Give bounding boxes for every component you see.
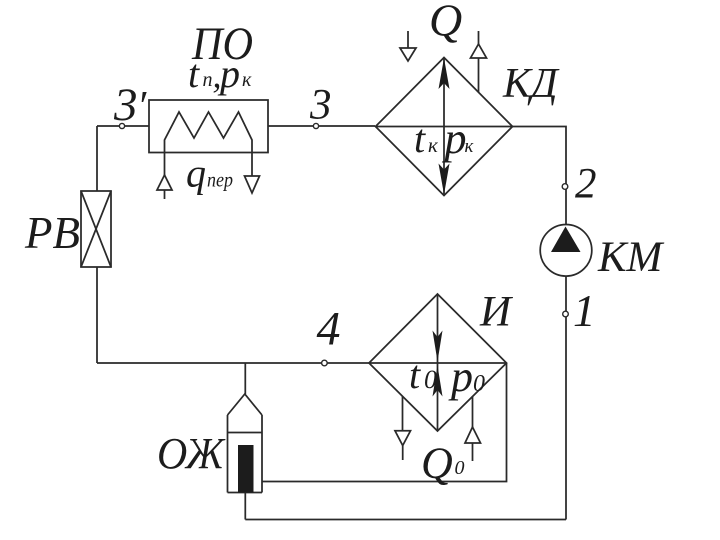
svg-text:КМ: КМ	[597, 234, 665, 281]
OZh liquid line	[228, 432, 263, 434]
svg-text:РВ: РВ	[24, 208, 80, 258]
wire lower horizontal (corner to evaporator left vertex)	[97, 362, 369, 364]
svg-text:p: p	[448, 352, 473, 401]
node 3'	[119, 123, 124, 128]
evaporator I diamond	[369, 294, 507, 431]
KD down dart arrowhead	[439, 164, 450, 195]
condenser KD diamond	[376, 58, 513, 196]
svg-text:t: t	[188, 51, 200, 96]
svg-text:п: п	[203, 69, 213, 91]
wire left vertical upper (corner to RV top)	[96, 126, 98, 191]
KD up dart arrowhead	[439, 58, 450, 89]
wire OZh side outlet to evaporator right vertex	[262, 363, 507, 482]
KD inlet arrow line (left, open triangle down)	[407, 31, 409, 48]
I outlet arrow line (left below, open triangle down)	[402, 396, 404, 431]
wire compressor bottom down to bottom corner	[565, 276, 567, 520]
svg-text:3: 3	[309, 82, 332, 129]
OZh left wall	[227, 415, 229, 493]
svg-text:0: 0	[455, 457, 465, 479]
svg-text:4: 4	[317, 303, 341, 356]
svg-text:t: t	[409, 352, 421, 397]
svg-text:0: 0	[424, 365, 437, 394]
PO bottom-left arrow (open triangle up)	[157, 175, 172, 190]
wire bottom horizontal (OZh to compressor corner)	[245, 519, 566, 521]
PO bottom-left pipe	[164, 153, 166, 176]
svg-text:3: 3	[113, 79, 138, 131]
node 1	[563, 311, 569, 317]
wire 3' horizontal (corner to PO inlet)	[97, 125, 149, 127]
svg-text:к: к	[465, 136, 475, 157]
svg-text:q: q	[186, 151, 206, 196]
svg-text:Q: Q	[421, 439, 453, 488]
PO bottom-right pipe	[251, 153, 253, 177]
expansion valve RV body	[81, 191, 111, 267]
compressor KM circle	[540, 225, 592, 277]
svg-text:′: ′	[137, 84, 147, 130]
liquid separator OZh roof	[228, 394, 263, 415]
PO coil zigzag	[165, 112, 253, 153]
KD outlet arrow line (right, open triangle up)	[478, 31, 480, 44]
svg-text:0: 0	[473, 371, 485, 397]
RV cross diagonals	[81, 191, 111, 267]
wire left vertical lower (RV bottom to lower corner)	[96, 267, 98, 363]
OZh right wall	[261, 415, 263, 493]
node 2	[562, 184, 568, 190]
I upper dart (points down to centre)	[433, 331, 443, 362]
OZh dip tube (filled)	[238, 445, 254, 493]
svg-text:ОЖ: ОЖ	[157, 429, 226, 478]
wire PO outlet to KD left vertex	[268, 125, 375, 127]
KM compressor triangle	[551, 227, 581, 253]
svg-text:2: 2	[575, 161, 597, 208]
svg-text:к: к	[428, 133, 438, 157]
svg-text:к: к	[242, 69, 252, 91]
I inlet arrow line (right below, open triangle up)	[472, 396, 474, 427]
node 3	[313, 123, 318, 128]
wire OZh bottom stub	[244, 493, 246, 520]
I lower dart (points up to centre)	[433, 366, 443, 397]
OZh bottom	[228, 492, 263, 494]
node 4	[322, 360, 328, 366]
svg-text:КД: КД	[502, 61, 560, 107]
I vertical diagonal	[437, 294, 439, 431]
svg-text:p: p	[217, 51, 240, 96]
KD horizontal diagonal	[376, 126, 513, 128]
KD vertical diagonal	[443, 58, 445, 196]
svg-text:p: p	[442, 114, 467, 163]
svg-text:1: 1	[573, 286, 596, 336]
heat exchanger PO body	[149, 100, 268, 153]
wire OZh neck	[244, 363, 246, 394]
svg-text:И: И	[479, 289, 514, 336]
I horizontal diagonal	[369, 362, 507, 364]
wire KD right vertex to corner and down to compressor	[513, 127, 567, 225]
svg-text:t: t	[414, 116, 426, 161]
svg-text:Q: Q	[429, 0, 462, 46]
PO bottom-right arrow (open triangle down)	[245, 176, 260, 193]
svg-text:пер: пер	[207, 170, 233, 192]
